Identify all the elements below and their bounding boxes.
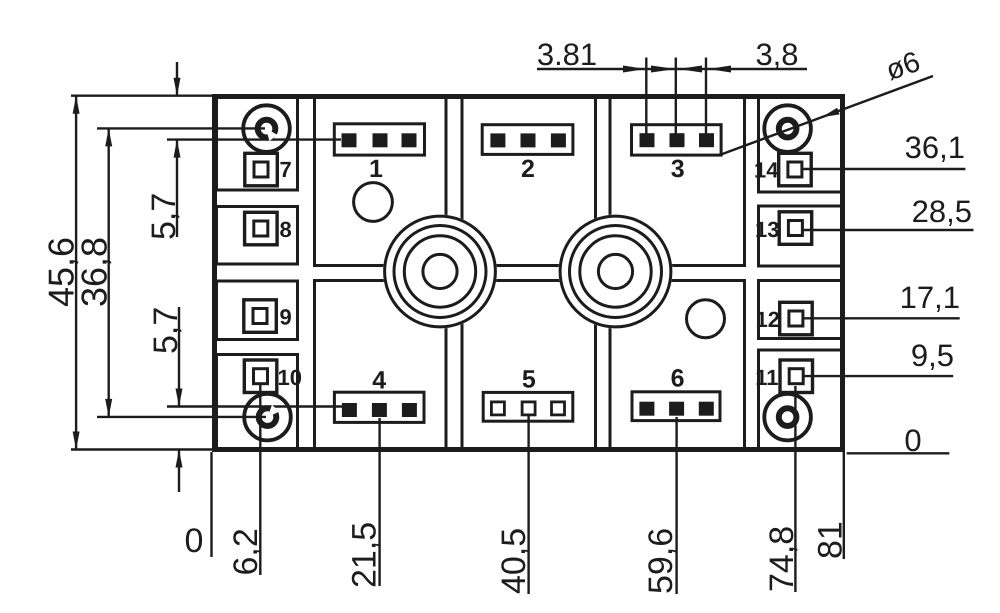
- svg-text:36,1: 36,1: [905, 130, 965, 165]
- svg-text:40,5: 40,5: [495, 528, 533, 594]
- svg-text:3: 3: [671, 155, 685, 183]
- svg-text:8: 8: [280, 217, 292, 242]
- svg-text:3.81: 3.81: [537, 37, 597, 72]
- svg-text:5,7: 5,7: [147, 307, 185, 354]
- svg-text:6,2: 6,2: [227, 528, 265, 575]
- svg-text:81: 81: [812, 521, 850, 559]
- svg-text:10: 10: [278, 365, 302, 390]
- svg-text:6: 6: [671, 365, 685, 393]
- svg-text:11: 11: [755, 365, 778, 390]
- svg-text:14: 14: [754, 158, 779, 183]
- svg-text:13: 13: [755, 217, 779, 242]
- svg-text:21,5: 21,5: [346, 522, 384, 588]
- svg-text:7: 7: [280, 157, 292, 182]
- svg-text:3,8: 3,8: [755, 37, 798, 72]
- svg-text:2: 2: [521, 155, 535, 183]
- svg-text:9,5: 9,5: [911, 338, 954, 373]
- svg-text:5,7: 5,7: [145, 193, 183, 240]
- svg-text:12: 12: [756, 307, 780, 332]
- svg-text:36,8: 36,8: [74, 237, 115, 307]
- svg-text:74,8: 74,8: [763, 526, 801, 592]
- svg-text:9: 9: [280, 305, 292, 330]
- svg-text:0: 0: [185, 522, 204, 560]
- svg-text:28,5: 28,5: [912, 194, 972, 229]
- svg-text:5: 5: [522, 366, 536, 394]
- svg-text:4: 4: [372, 367, 386, 395]
- svg-text:0: 0: [904, 423, 921, 458]
- svg-text:17,1: 17,1: [900, 280, 960, 315]
- svg-text:1: 1: [369, 155, 383, 183]
- svg-text:59,6: 59,6: [642, 528, 680, 594]
